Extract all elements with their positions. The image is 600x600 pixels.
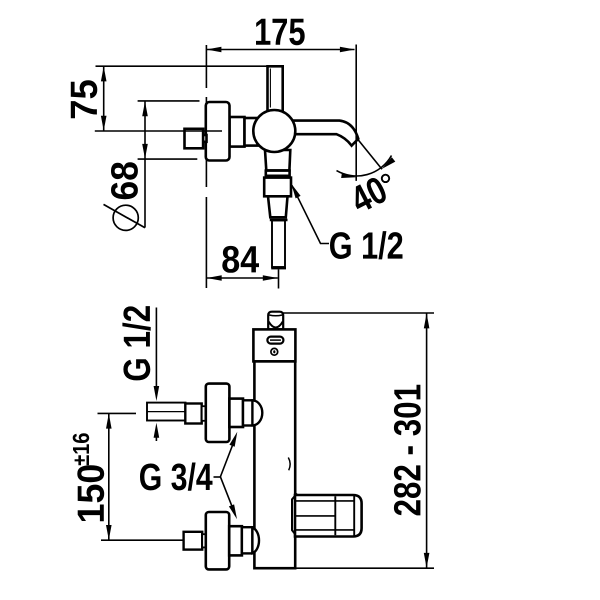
- diameter symbol circle: [113, 205, 138, 230]
- small step between square and flange: [203, 135, 207, 142]
- dim 150: line and arrows: [106, 413, 112, 540]
- lower connector: step: [202, 534, 206, 547]
- neck between flange and valve body: [230, 117, 245, 147]
- spout: [292, 121, 358, 146]
- nipple extension line below: [278, 270, 280, 289]
- label G 1/2 text (bottom drawing, rotated): [122, 306, 150, 380]
- dim 84: line and arrows: [207, 275, 278, 281]
- screw circle: [271, 348, 278, 355]
- 40 deg text (rotated): [348, 175, 389, 214]
- dim 84 text: [222, 246, 259, 273]
- degree symbol: [382, 175, 389, 182]
- head block: [253, 329, 295, 361]
- dim G1/2 pipe: lower pointer: [155, 438, 157, 442]
- top nipple cap line: [269, 314, 282, 317]
- upper connector: step: [202, 406, 206, 421]
- lower connector: rosette: [206, 512, 229, 569]
- outlet nipple G1/2: [272, 221, 285, 268]
- highlight mark on column: [288, 458, 290, 471]
- top nipple: [268, 312, 283, 330]
- nipple end cap: [271, 267, 286, 269]
- body below valve: upper trapezoid: [265, 150, 290, 170]
- label G 1/2 (top drawing) leader: [292, 185, 329, 243]
- dim 282-301: line and arrows: [424, 313, 430, 568]
- horizontal centerline: [95, 130, 222, 132]
- label G 3/4 leader stub: [214, 476, 221, 478]
- bottom outlet washer: [292, 493, 297, 536]
- lower connector: cap: [242, 527, 253, 553]
- dim 282-301: extension lines: [283, 312, 434, 314]
- lower connector: union body: [229, 526, 242, 555]
- main column: [254, 361, 295, 568]
- upper connector: dome: [252, 400, 262, 425]
- nipple shoulder bar: [270, 219, 288, 222]
- right extension line (also 40-deg reference): [355, 45, 357, 181]
- label G 1/2 text (top drawing): [330, 231, 403, 259]
- upper connector: nut: [185, 404, 201, 424]
- wide ring section: [264, 178, 291, 197]
- dim 150 text (rotated): [77, 465, 104, 521]
- 40 deg ray from spout tip: [357, 138, 382, 169]
- label G 3/4 text: [140, 463, 213, 491]
- dim 68 text (rotated): [111, 162, 138, 199]
- valve body circle: [253, 110, 295, 152]
- dim 175: line and arrows: [206, 47, 355, 53]
- label G 3/4 lower leader: [220, 477, 235, 514]
- lower connector: dome: [252, 528, 259, 554]
- dim 282-301 text (rotated): [394, 385, 421, 516]
- dim 75 text (rotated): [71, 80, 98, 118]
- diameter symbol slash: [104, 204, 146, 227]
- upper connector: cap: [243, 400, 253, 425]
- label G 3/4 upper leader: [220, 438, 235, 478]
- thin ring band: [266, 171, 290, 176]
- square wall connector: [185, 129, 204, 149]
- top nipple base curve: [269, 322, 283, 328]
- 40 deg arc arrows: [341, 172, 357, 180]
- dim 150: extension lines: [98, 412, 137, 414]
- wall centerline (dashed): [205, 45, 207, 288]
- dim 150 tolerance text (rotated): [73, 433, 90, 465]
- dim 175 text: [256, 19, 305, 46]
- dim D68: extension lines: [138, 100, 200, 102]
- dim 75: line and arrows: [101, 66, 107, 131]
- wall flange (side view): [206, 102, 230, 161]
- display slot: [267, 337, 283, 344]
- upper connector: rosette: [206, 384, 230, 442]
- dim G1/2 pipe: upper pointer: [155, 308, 157, 388]
- bottom outlet cylinder: [295, 495, 362, 537]
- dim D68: line and arrows: [142, 101, 148, 228]
- upper connector: union body: [229, 399, 243, 427]
- vertical stem (top pipe): [268, 66, 283, 114]
- tapered cone: [268, 196, 288, 217]
- outlet inner lines: [296, 500, 354, 502]
- upper connector: supply pipe: [147, 403, 186, 421]
- lower connector: nut: [184, 532, 203, 550]
- dim 75: extension line top: [96, 65, 268, 67]
- 40 deg arc: [337, 156, 392, 177]
